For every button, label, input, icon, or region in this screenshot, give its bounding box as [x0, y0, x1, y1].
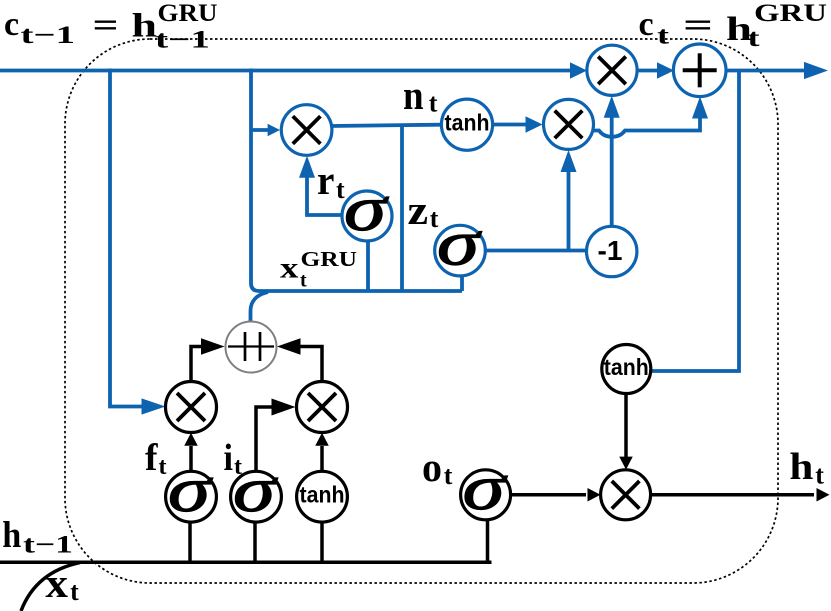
svg-text:i: i: [224, 437, 234, 479]
wire mid vertical x251 with corner into xGRU bus: [251, 69, 462, 292]
wire f-mult up into concat: [191, 338, 225, 381]
svg-text:f: f: [145, 437, 159, 479]
wire -1 up into mult-top: [604, 96, 620, 226]
svg-text:c: c: [4, 6, 19, 43]
sigma node S-i: [231, 455, 282, 525]
label h_t: [789, 446, 824, 490]
label c_t-1 = h_t-1^GRU: [4, 0, 218, 54]
svg-text:t−1: t−1: [155, 27, 210, 54]
wire stem sigma-f: [188, 522, 192, 562]
svg-text:x: x: [280, 252, 298, 285]
svg-text:t−1: t−1: [23, 532, 73, 559]
svg-text:=: =: [93, 7, 119, 44]
wire i-mult up into concat: [277, 338, 322, 381]
multiply node M-top: [587, 45, 637, 95]
wire mult-top to plus: [637, 62, 674, 79]
wire plus to c_t output: [726, 62, 828, 79]
svg-text:-1: -1: [598, 235, 623, 266]
svg-text:σ: σ: [463, 453, 509, 523]
svg-text:z: z: [408, 187, 429, 233]
sigma node S-r: [342, 174, 392, 244]
svg-text:h: h: [132, 8, 158, 45]
tanh node T-n: [441, 99, 492, 150]
wire sigma-i elbow into i-mult: [256, 399, 296, 471]
svg-text:GRU: GRU: [301, 247, 358, 271]
node -1: [587, 226, 637, 276]
wire left vertical into forget-mult: [110, 69, 166, 415]
svg-text:h: h: [789, 446, 813, 488]
svg-text:t: t: [815, 461, 824, 490]
svg-text:t: t: [70, 577, 79, 606]
wire stem tanh-c: [320, 522, 324, 562]
wire sigma-f up into f-mult: [184, 433, 198, 470]
label o_t: [422, 444, 453, 490]
wire branch into r-mult: [251, 124, 280, 136]
label x_t^GRU: [280, 247, 357, 292]
svg-text:t: t: [429, 89, 438, 118]
wire sigma-z output to -1 with branch up into z-mult: [485, 150, 587, 251]
wire h bus bottom: [0, 520, 492, 563]
svg-text:t: t: [657, 23, 670, 50]
svg-text:tanh: tanh: [445, 110, 490, 136]
svg-text:r: r: [317, 157, 334, 203]
wire x_t merge curve: [21, 563, 80, 611]
multiply node M-i: [297, 382, 348, 433]
wire c-line top: [0, 62, 587, 79]
svg-text:σ: σ: [168, 455, 214, 525]
wire sigma-r output into r-mult: [299, 156, 342, 215]
wire stem sigma-i: [253, 522, 257, 562]
multiply node M-out: [601, 470, 651, 520]
label n_t: [403, 72, 438, 118]
sigma node S-z: [435, 209, 486, 279]
svg-text:t: t: [300, 270, 307, 292]
svg-text:x: x: [45, 560, 68, 606]
label x_t: [45, 560, 79, 606]
svg-text:GRU: GRU: [754, 0, 827, 27]
wire tanh-h down into out-mult: [619, 394, 633, 470]
tanh node T-c: [297, 471, 348, 522]
wire n_t: r-mult to tanh: [330, 125, 442, 126]
wire sigma-r bottom to bus: [366, 240, 370, 291]
wire tanh-c up into i-mult: [315, 433, 329, 470]
wire sigma-z bottom to bus: [460, 274, 464, 291]
sigma node S-o: [461, 453, 511, 523]
svg-text:t: t: [234, 454, 242, 480]
tanh node T-h: [602, 345, 651, 394]
svg-text:c: c: [639, 6, 654, 43]
svg-text:σ: σ: [344, 174, 390, 244]
label c_t = h_t^GRU: [639, 0, 828, 52]
wire c branch down to tanh-out: [650, 71, 739, 372]
svg-text:t: t: [159, 454, 167, 480]
svg-text:h: h: [2, 515, 21, 556]
concat node: [226, 322, 277, 373]
wire tanh to z-mult: [493, 116, 543, 133]
label z_t: [408, 187, 439, 233]
wire sigma-o to out-mult: [511, 488, 601, 502]
svg-text:t: t: [444, 461, 453, 490]
svg-text:σ: σ: [437, 209, 483, 279]
svg-text:=: =: [683, 7, 713, 44]
svg-text:t: t: [336, 175, 345, 204]
wire branch down into concat: [251, 292, 269, 322]
wire tap down from n wire to bus: [400, 125, 404, 291]
label h_t-1: [2, 515, 73, 559]
svg-text:tanh: tanh: [300, 482, 345, 508]
sigma node S-f: [166, 455, 217, 525]
svg-text:t: t: [748, 25, 761, 52]
multiply node M-r: [281, 105, 332, 156]
add node P-plus: [673, 44, 726, 97]
dotted cell border: [65, 39, 778, 583]
label f_t: [145, 437, 167, 480]
svg-text:t−1: t−1: [21, 22, 76, 49]
wire h_t output: [651, 488, 830, 502]
svg-text:t: t: [430, 204, 439, 233]
svg-text:GRU: GRU: [158, 0, 218, 27]
multiply node M-f: [166, 382, 217, 433]
multiply node M-z: [544, 99, 594, 149]
svg-text:tanh: tanh: [604, 354, 649, 380]
svg-text:o: o: [422, 444, 442, 490]
label r_t: [317, 157, 345, 204]
wire z-mult to plus with hop: [591, 97, 708, 137]
label i_t: [224, 437, 243, 480]
svg-text:n: n: [403, 72, 424, 118]
